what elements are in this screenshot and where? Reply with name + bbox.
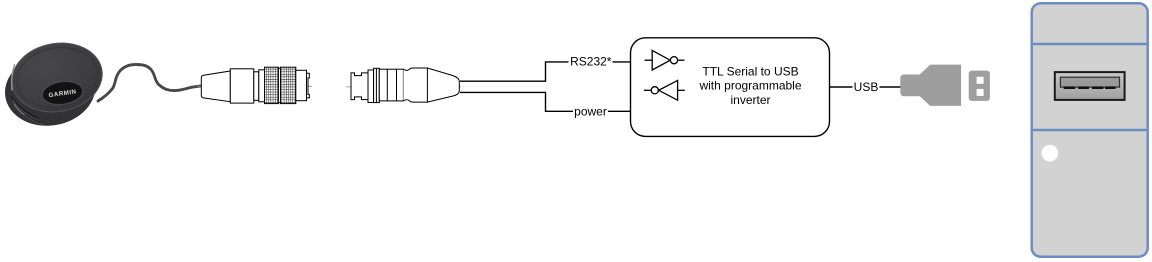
cable from puck to connector [98, 65, 202, 102]
centerline [346, 86, 464, 88]
tower separator 1 [1032, 43, 1148, 46]
ring A [368, 70, 374, 103]
wire: upper pigtail lead (RS232) [460, 62, 630, 81]
tip cylinder [296, 70, 307, 100]
puck left rim highlight [12, 65, 15, 91]
wire: box to USB plug [830, 86, 901, 88]
strain relief taper [201, 71, 230, 102]
computer tower [1032, 3, 1148, 257]
GPS receiver puck (Garmin) [0, 36, 108, 133]
puck side ridges [12, 97, 44, 125]
puck base (side skirt) [0, 46, 101, 133]
label power [573, 104, 608, 118]
wire: lower pigtail lead (power) [460, 92, 630, 111]
tip end step [307, 73, 310, 98]
neck ring [254, 72, 259, 101]
puck top face [6, 36, 107, 119]
svg-text:inverter: inverter [730, 93, 770, 107]
waist and rear body [403, 68, 427, 102]
USB plug (type A) [900, 65, 961, 106]
body with grooves [379, 69, 403, 101]
label RS232* [569, 54, 613, 68]
svg-text:RS232*: RS232* [570, 54, 612, 68]
strain relief taper [427, 68, 459, 102]
tall ring [374, 68, 380, 102]
Garmin badge [41, 79, 85, 107]
spacer ring [278, 68, 280, 102]
knurled band 2 [281, 67, 296, 103]
svg-text:TTL Serial to USB: TTL Serial to USB [702, 64, 798, 78]
USB port on tower [1055, 72, 1125, 100]
port contacts [1064, 86, 1116, 89]
converter box: TTL Serial to USB [631, 38, 830, 137]
connector 1 (round connector on puck cable) [197, 67, 312, 103]
svg-text:with programmable: with programmable [698, 79, 801, 93]
svg-text:power: power [574, 104, 607, 118]
svg-text:USB: USB [854, 80, 879, 94]
barrel body [230, 69, 254, 103]
tower separator 2 [1032, 129, 1148, 132]
ring [259, 70, 265, 102]
label USB [853, 80, 880, 94]
centerline [197, 85, 312, 87]
power button [1042, 145, 1059, 162]
knurled band 1 [265, 67, 279, 103]
USB receptacle symbol [969, 71, 990, 101]
inverter gate U1 (right-facing) [645, 50, 685, 70]
tip with bayonet notch [351, 73, 368, 100]
inverter gate U2 (left-facing) [644, 80, 685, 100]
connector 2 (mating round connector with pigtail wires) [346, 68, 464, 103]
